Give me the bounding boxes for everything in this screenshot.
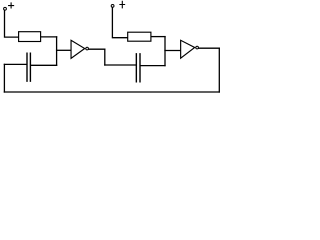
wire supply1 to R1: [5, 10, 19, 37]
wire U2 output: [199, 47, 220, 49]
wire U1 output down: [104, 49, 106, 65]
wire node B vertical: [164, 37, 166, 66]
wire U1 output: [89, 48, 105, 50]
wire node A to inverter U1 input: [57, 49, 71, 51]
wire coupling to C2 left lead: [105, 64, 136, 66]
inverter U2: [181, 40, 199, 58]
wire R1 to node A: [41, 36, 57, 38]
wire U2 output down right vertical: [218, 48, 220, 92]
wire feedback bottom rail: [4, 91, 219, 93]
supply terminal circle (stage 2): [111, 5, 114, 8]
capacitor C1: [27, 53, 30, 81]
wire capacitor C1 left lead: [4, 63, 26, 65]
wire node B to inverter U2 input: [165, 50, 180, 52]
inverter U1: [71, 40, 88, 58]
wire capacitor C1 right lead: [31, 64, 56, 66]
wire node A vertical: [56, 37, 58, 65]
plus label (stage 2): [120, 1, 125, 8]
wire supply2 to R2: [112, 8, 127, 38]
plus label (stage 1): [9, 3, 14, 8]
supply terminal circle (stage 1): [4, 7, 7, 10]
wire capacitor C2 right lead: [141, 65, 165, 67]
capacitor C2: [136, 54, 140, 82]
wire feedback left vertical: [3, 64, 5, 92]
wire R2 to node B: [151, 36, 165, 38]
resistor R1: [19, 32, 41, 42]
resistor R2: [128, 32, 151, 41]
